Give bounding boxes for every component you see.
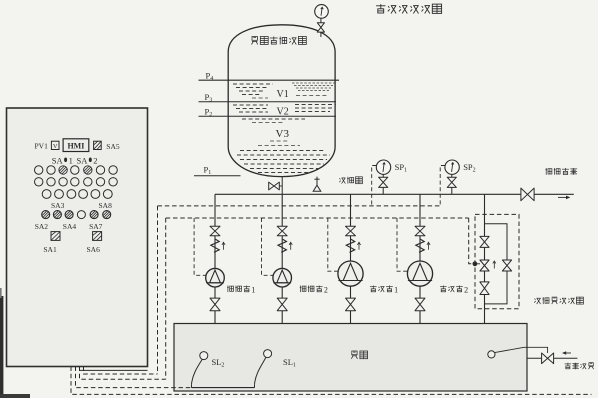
switch SA6 (hatched box) [93,232,102,241]
pressure gauge SP1 [376,160,390,174]
gate valve above pump 1 [210,226,220,236]
relief branch solenoid valve [480,260,489,271]
svg-text:SA1: SA1 [43,245,57,254]
check valve above pump 2 [278,239,286,252]
flow arrow pump 4 [428,242,430,250]
panel wire 3 [80,367,166,380]
HMI display [63,139,89,152]
pump 1 outlet pipe [214,287,216,324]
signal wire SP1 [372,166,377,206]
svg-text:SA: SA [77,155,89,165]
check valve above pump 1 [211,239,219,252]
label 稳压泵2 [440,286,463,293]
check valve above pump 3 [346,239,354,252]
pressure gauge SP2 [445,160,459,174]
svg-text:V2: V2 [277,107,289,118]
svg-text:2: 2 [464,285,468,294]
control wire pump 3 [328,218,339,271]
gate valve above pump 2 [277,226,287,236]
bus2 left drop wire [165,218,167,379]
svg-text:SA7: SA7 [89,222,103,231]
svg-text:SA3: SA3 [51,201,65,210]
pump 4 suction riser [419,194,421,261]
relief main branch pipe [484,194,486,323]
level line P2 [199,115,337,117]
float valve lever [495,347,548,353]
pipe to top gauge [320,19,322,38]
relief bypass pipe [485,224,508,304]
bus1 left drop wire [157,206,159,374]
svg-text:V3: V3 [276,128,290,140]
gate valve above pump 4 [415,226,425,236]
pump 2 suction riser [281,194,283,268]
panel wire 2 [76,367,192,388]
svg-text:SA2: SA2 [35,222,49,231]
flow arrow pump 3 [358,242,360,250]
pump 3 suction riser [350,194,352,261]
valve below pump 1 [210,298,220,311]
bus2 wire to solenoid valve [469,218,473,264]
valve below pump 2 [277,298,287,311]
indicator lamp row 1 [35,166,43,174]
level line P3 [199,101,337,103]
svg-text:1: 1 [251,285,255,294]
float switch SL1 [255,357,267,384]
supply valve [542,353,554,364]
pressure switch SP1 riser [382,175,384,195]
label 安全阀 [339,177,362,184]
flow arrow to fire network [558,196,569,198]
wire under panel [79,369,148,371]
valve under SP2 [447,177,456,187]
panel wire 4 [84,367,158,375]
pump 3 outlet pipe [350,286,352,323]
scan edge artifacts [0,296,3,398]
control wire pump 4 [397,218,408,271]
pump 1 body [206,268,225,287]
signal wire SP2 [440,166,445,206]
label 消防泵2 [300,286,323,293]
svg-text:SA4: SA4 [63,222,77,231]
bypass flow arrow [493,261,495,269]
level line P1 [194,175,241,177]
panel wire 1 [71,367,592,395]
svg-text:1: 1 [394,285,398,294]
tank V3 hatching [270,140,288,142]
valve below pump 3 [346,298,356,311]
gate valve on fire network line [521,188,534,201]
switch box (hatched) [94,141,102,149]
tank V2 band hatching [233,104,268,106]
control wire pump 1 [194,218,206,275]
label 管网供水 [565,363,594,370]
supply pipe 管网供水 [527,357,577,359]
label 巡检泄压装置 [534,297,583,304]
valve below pump 4 [415,298,425,311]
tank bottom band hatching [240,150,325,152]
svg-text:PV1: PV1 [35,142,49,151]
svg-text:SA6: SA6 [87,245,101,254]
pump 2 outlet pipe [281,287,283,324]
relief branch valve 3 [480,282,489,295]
tank outlet pipe [281,177,283,195]
control wire pump 2 [262,218,274,275]
indicator lamp row 3 [42,190,51,199]
tank label 隔膜式气压罐 [252,37,307,45]
gate valve above pump 3 [346,226,356,236]
level line P4 [199,79,340,81]
label 电接点压力表 [376,4,442,13]
main discharge manifold [215,193,574,195]
label 稳压泵1 [370,286,393,293]
float ball [488,351,495,358]
float switch common wire [192,387,255,389]
relief branch valve 1 [480,236,489,247]
bypass valve [502,260,511,271]
valve under SP1 [379,177,388,187]
flow arrow pump 2 [290,242,292,250]
signal bus 2 (dashed) [166,217,469,219]
tank outlet valve [269,182,280,190]
pump 4 outlet pipe [419,286,421,323]
pressure switch SP2 riser [451,175,453,195]
svg-text:V: V [53,143,58,150]
float switch SL2 [192,359,203,384]
check valve above pump 4 [416,239,424,252]
pump 2 body [273,268,292,287]
label 消防泵1 [227,286,250,293]
tank V1 band hatching [233,83,273,85]
label 水池 [351,351,367,359]
label 消防管网 [545,168,577,175]
meter V1 box [51,141,59,149]
svg-text:2: 2 [93,155,97,165]
safety valve 安全阀 [313,185,321,191]
supply flow arrow [563,352,571,354]
switch SA1 (hatched box) [51,232,60,241]
control panel enclosure [7,108,148,367]
svg-text:SA5: SA5 [106,142,120,151]
svg-text:1: 1 [69,155,73,165]
svg-text:SA: SA [52,155,64,165]
svg-text:V1: V1 [277,89,289,100]
svg-text:HMI: HMI [67,142,84,151]
svg-text:2: 2 [324,285,328,294]
solenoid actuator dot [477,263,480,265]
diaphragm pressure tank [228,25,335,177]
electric contact pressure gauge [315,5,329,19]
patrol relief device dashed box [475,214,519,308]
button row SA group [42,211,50,219]
valve under top gauge [317,23,324,32]
svg-text:SA8: SA8 [99,201,113,210]
signal bus 1 (dashed) [158,205,441,207]
pump 4 body [407,261,432,286]
water pool [174,324,527,392]
indicator lamp row 2 [35,178,43,186]
flow arrow pump 1 [223,242,225,250]
pump 3 body [338,261,363,286]
pump 1 suction riser [214,194,216,268]
